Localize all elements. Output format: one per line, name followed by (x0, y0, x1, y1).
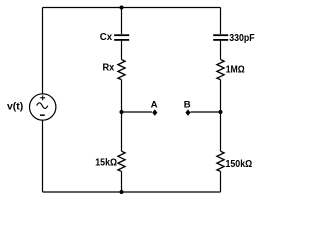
svg-text:A: A (151, 100, 158, 111)
svg-text:Cx: Cx (100, 32, 113, 43)
svg-text:150kΩ: 150kΩ (226, 159, 253, 170)
svg-text:B: B (184, 100, 191, 111)
svg-text:1MΩ: 1MΩ (226, 65, 245, 76)
svg-text:15kΩ: 15kΩ (95, 157, 117, 168)
svg-text:330pF: 330pF (229, 33, 254, 44)
svg-text:Rx: Rx (103, 63, 115, 74)
svg-text:v(t): v(t) (7, 101, 23, 112)
